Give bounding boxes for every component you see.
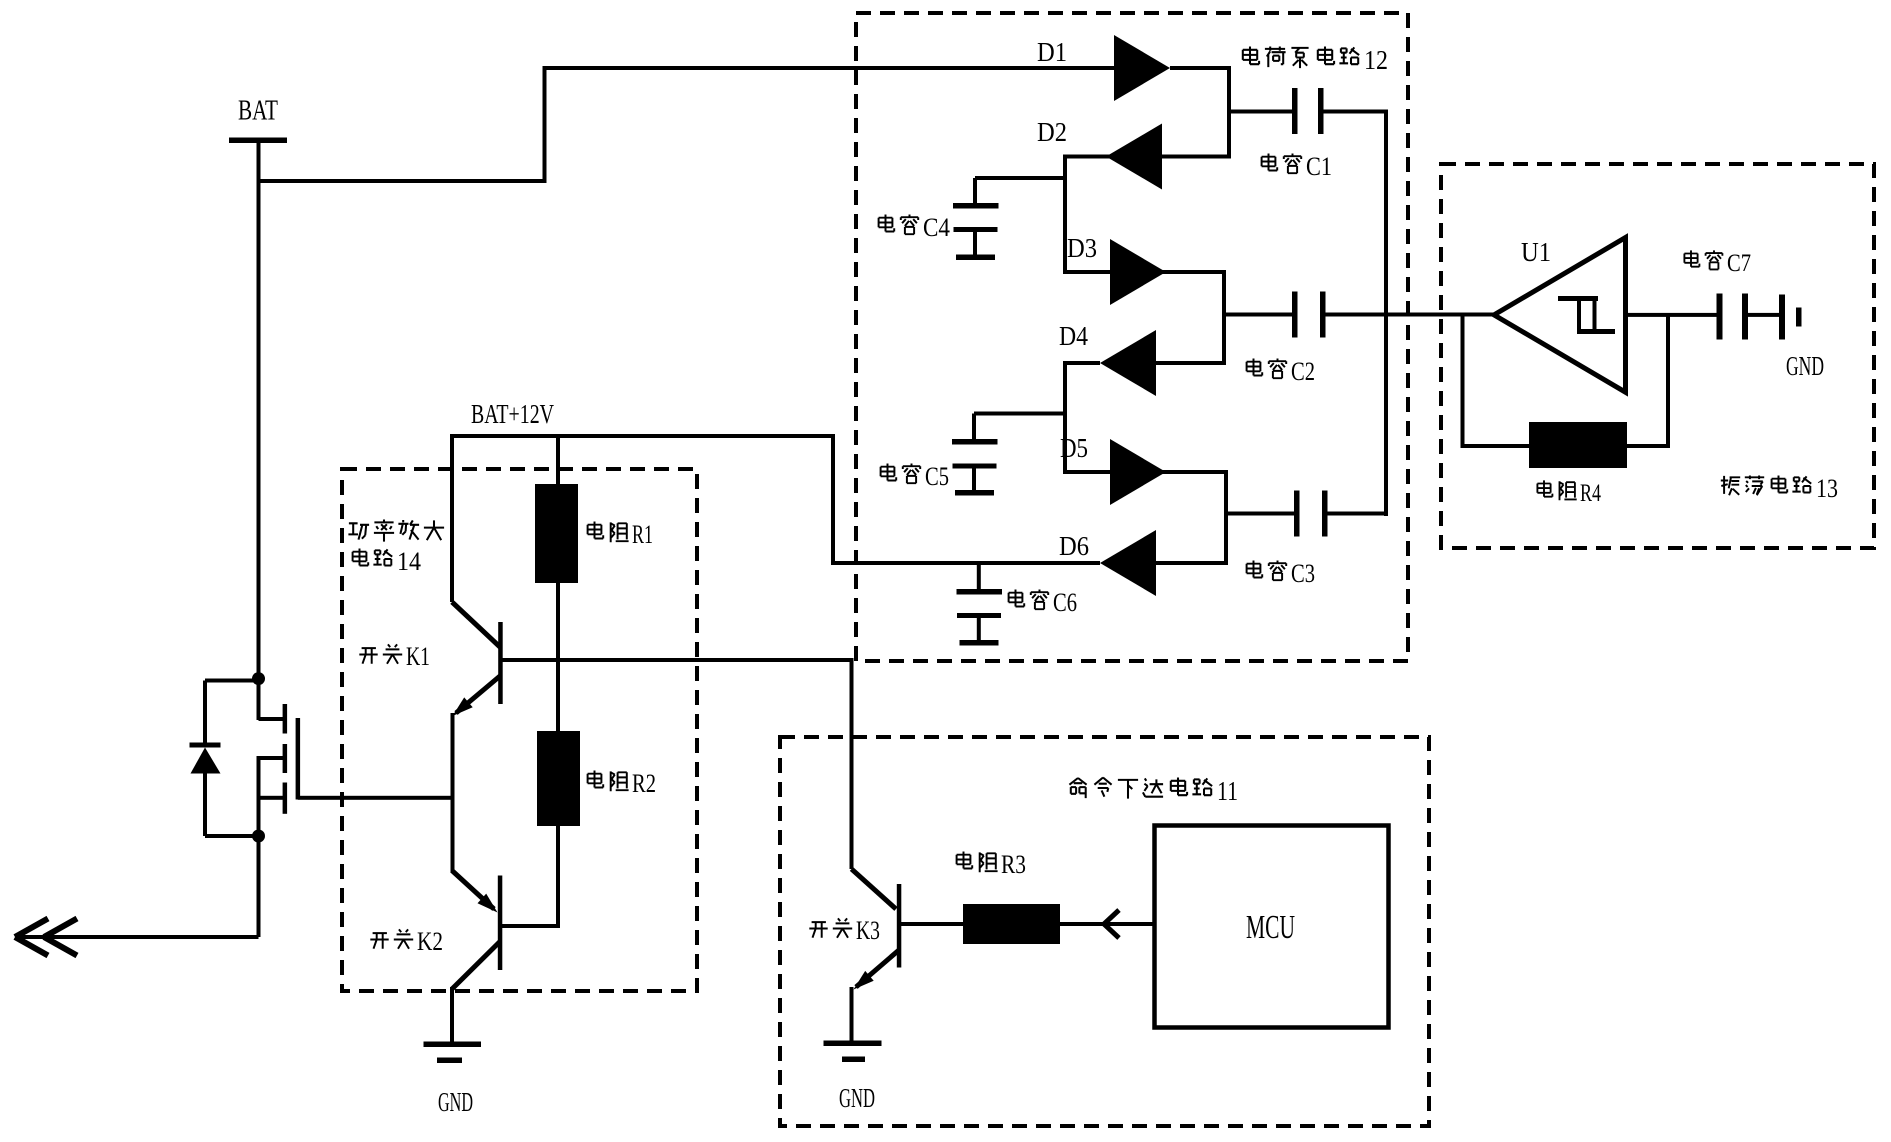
svg-text:D6: D6 (1059, 531, 1089, 561)
svg-text:BAT: BAT (238, 96, 278, 127)
svg-text:D2: D2 (1037, 117, 1067, 147)
svg-text:GND: GND (1786, 351, 1824, 381)
svg-text:R4: R4 (1580, 480, 1601, 507)
svg-text:K3: K3 (856, 916, 880, 945)
svg-text:D4: D4 (1059, 321, 1088, 351)
svg-text:D1: D1 (1037, 37, 1067, 67)
svg-text:11: 11 (1217, 776, 1238, 806)
svg-text:C4: C4 (923, 213, 950, 242)
svg-text:BAT+12V: BAT+12V (471, 399, 554, 429)
svg-text:D5: D5 (1060, 433, 1088, 463)
svg-text:GND: GND (839, 1083, 875, 1113)
svg-text:C1: C1 (1306, 152, 1332, 181)
svg-text:C3: C3 (1291, 559, 1315, 588)
svg-text:K2: K2 (417, 927, 443, 956)
svg-text:K1: K1 (406, 642, 430, 671)
svg-text:GND: GND (438, 1087, 473, 1117)
svg-text:MCU: MCU (1246, 909, 1295, 946)
svg-text:D3: D3 (1067, 233, 1097, 263)
svg-text:C2: C2 (1291, 357, 1315, 386)
svg-text:R2: R2 (632, 769, 656, 798)
svg-text:C7: C7 (1727, 250, 1751, 277)
svg-text:R3: R3 (1001, 850, 1026, 879)
svg-text:C6: C6 (1053, 588, 1077, 617)
svg-text:14: 14 (397, 547, 421, 576)
svg-text:R1: R1 (632, 520, 653, 549)
svg-text:13: 13 (1816, 474, 1838, 503)
svg-text:C5: C5 (925, 462, 949, 491)
svg-text:U1: U1 (1521, 237, 1551, 267)
svg-text:12: 12 (1364, 45, 1388, 75)
